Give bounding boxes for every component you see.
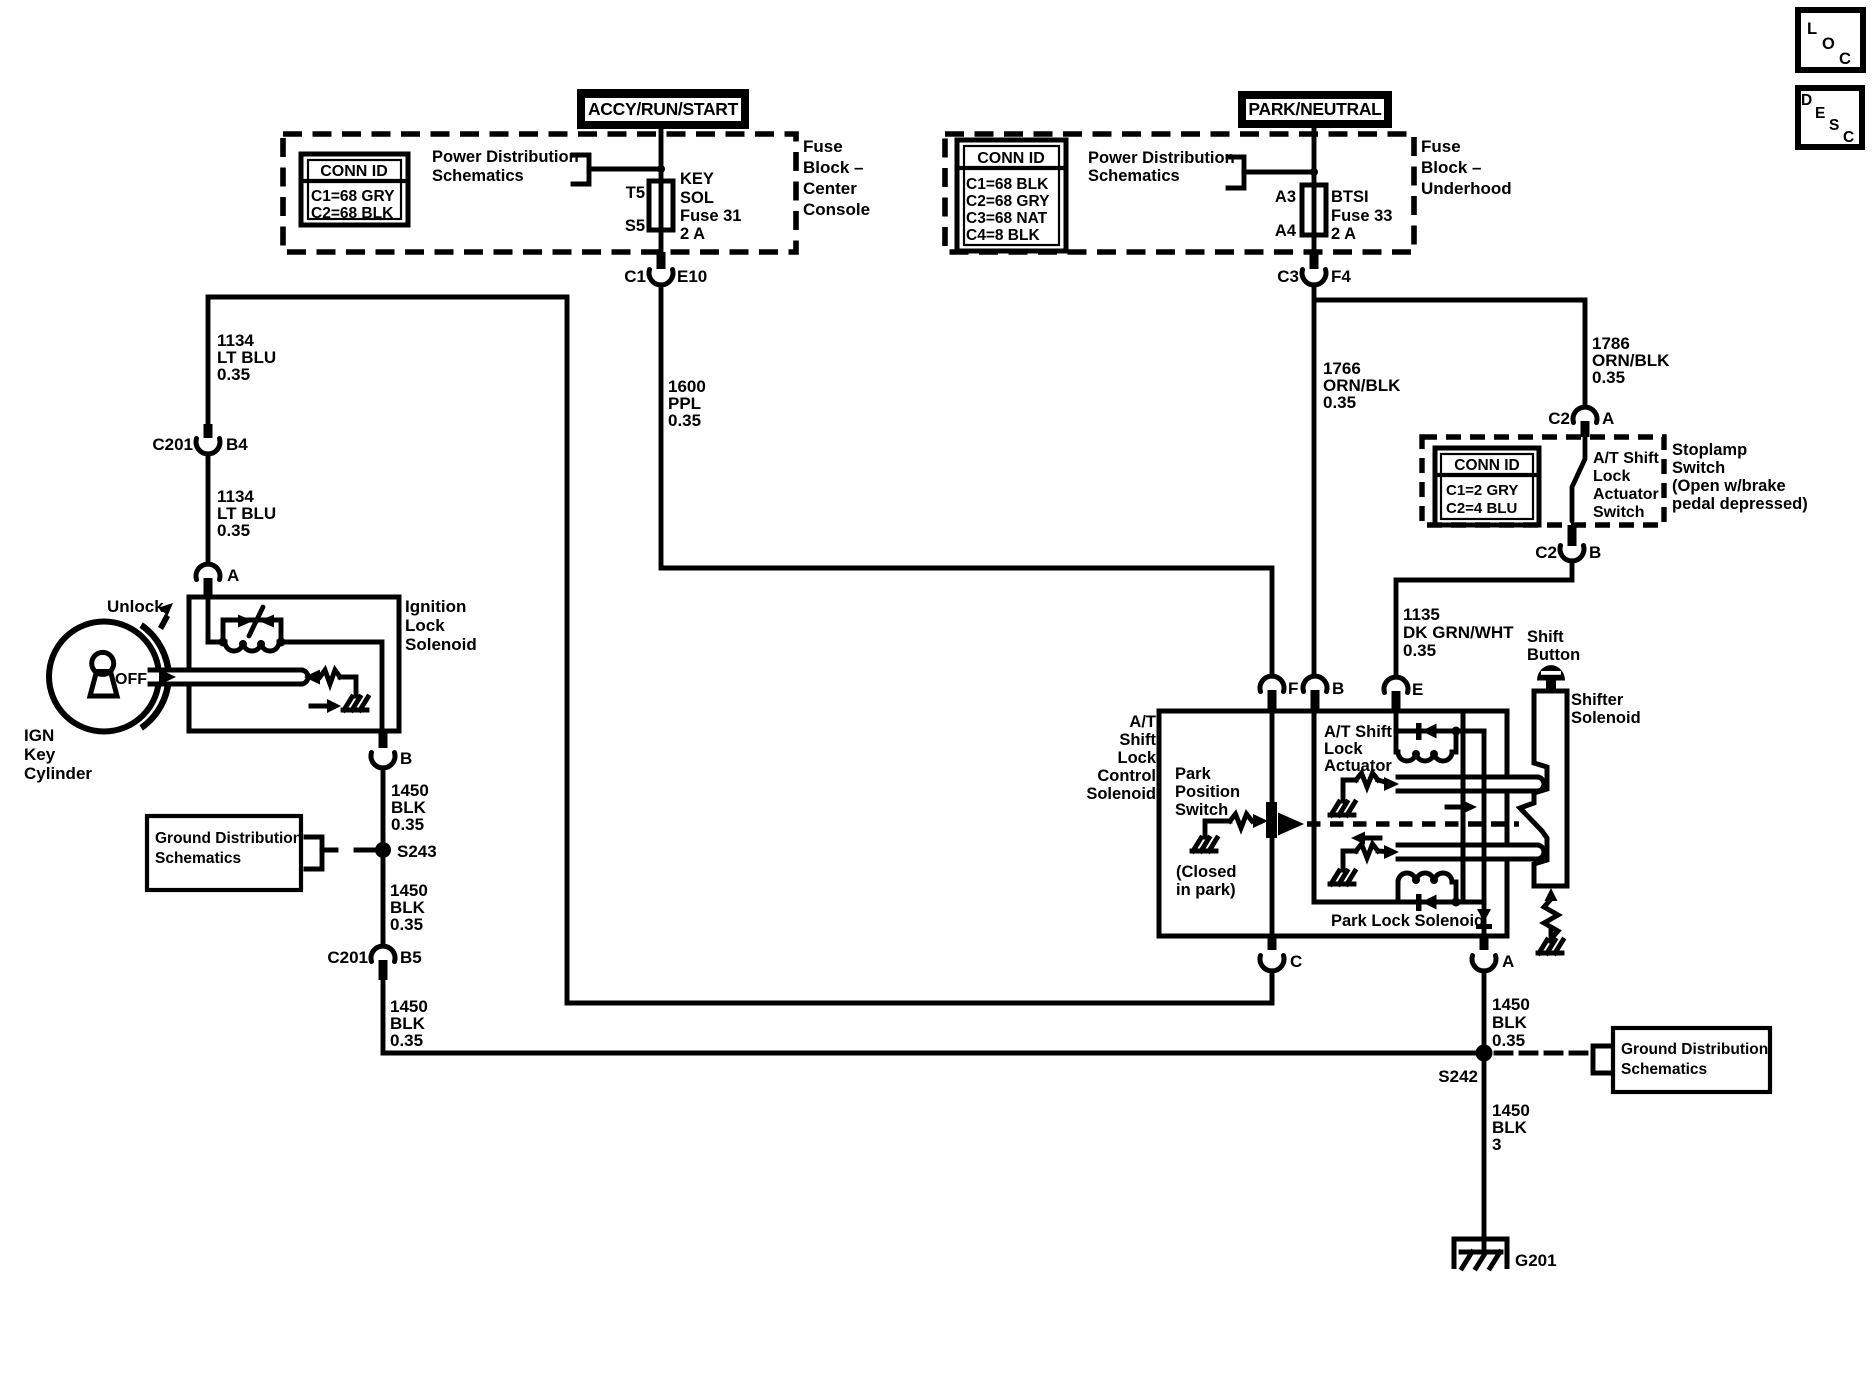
key-turn crescent arc	[140, 622, 173, 730]
svg-text:pedal depressed): pedal depressed)	[1672, 495, 1808, 513]
park position switch contact bar	[1266, 802, 1277, 838]
connector C201/B5	[327, 946, 421, 967]
svg-text:Shifter: Shifter	[1571, 691, 1624, 709]
label Fuse Block - Center Console	[803, 137, 870, 219]
svg-text:2 A: 2 A	[680, 225, 705, 243]
park position switch label	[1175, 765, 1240, 819]
ground distribution schematics box (S242)	[1613, 1028, 1770, 1092]
svg-text:O: O	[1822, 35, 1835, 53]
svg-text:C2=68 BLK: C2=68 BLK	[311, 205, 394, 222]
connector C2/B (stoplamp switch)	[1568, 525, 1577, 546]
svg-text:0.35: 0.35	[1492, 1031, 1525, 1050]
dashed link to splice S243	[322, 848, 345, 853]
shifter spring ground	[1538, 951, 1562, 956]
svg-text:Stoplamp: Stoplamp	[1672, 441, 1747, 459]
title box PARK/NEUTRAL	[1238, 91, 1392, 128]
left loop wire (connector C back to C201/B4)	[208, 297, 1272, 1003]
svg-text:A: A	[227, 566, 239, 585]
svg-text:C2=4 BLU: C2=4 BLU	[1446, 500, 1517, 517]
stoplamp switch dashed box	[1422, 437, 1664, 525]
label Shift Button	[1527, 628, 1580, 664]
svg-text:Fuse 33: Fuse 33	[1331, 207, 1392, 225]
wire fuse 33 to connector C3/F4	[1312, 235, 1317, 258]
case ground (ignition solenoid)	[343, 708, 367, 713]
svg-text:G201: G201	[1515, 1251, 1557, 1270]
svg-text:CONN ID: CONN ID	[320, 163, 388, 180]
svg-text:(Closed: (Closed	[1176, 863, 1237, 881]
svg-text:3: 3	[1492, 1135, 1501, 1154]
svg-text:D: D	[1801, 92, 1812, 109]
park position switch actuator arrow	[1278, 813, 1304, 836]
svg-text:C2: C2	[1535, 543, 1557, 562]
park lock solenoid suppression diode	[1314, 900, 1484, 905]
svg-text:DK GRN/WHT: DK GRN/WHT	[1403, 623, 1514, 642]
svg-text:KEY: KEY	[680, 170, 714, 188]
fuse 31 terminal labels T5 / S5	[625, 184, 645, 235]
svg-text:Lock: Lock	[1593, 468, 1630, 485]
svg-text:Shift: Shift	[1527, 628, 1564, 646]
svg-text:1135: 1135	[1403, 605, 1440, 624]
svg-text:C1: C1	[624, 267, 646, 286]
CONN ID table (stoplamp switch)	[1435, 448, 1539, 525]
plunger rod (key cylinder to solenoid)	[150, 670, 308, 684]
connector C2/A (stoplamp switch)	[1581, 421, 1590, 437]
svg-text:C2: C2	[1548, 409, 1570, 428]
svg-text:Ground Distribution: Ground Distribution	[155, 830, 302, 847]
svg-text:SOL: SOL	[680, 189, 714, 207]
park lock solenoid coil	[1398, 873, 1452, 882]
svg-text:Actuator: Actuator	[1324, 757, 1392, 775]
svg-text:Fuse: Fuse	[1421, 137, 1461, 156]
svg-text:Lock: Lock	[405, 616, 445, 635]
svg-text:Unlock: Unlock	[107, 597, 164, 616]
label Power Distribution Schematics (left)	[432, 148, 579, 185]
svg-text:0.35: 0.35	[1323, 393, 1356, 412]
connector B (A/T box)	[1303, 676, 1344, 698]
svg-text:A3: A3	[1275, 188, 1296, 206]
splice S242	[1476, 1045, 1493, 1062]
svg-text:Button: Button	[1527, 646, 1580, 664]
fuse 33 (BTSI, 2A)	[1302, 185, 1326, 235]
label Fuse Block - Underhood	[1421, 137, 1512, 198]
svg-text:0.35: 0.35	[217, 521, 250, 540]
connector F	[1260, 676, 1298, 698]
IGN key cylinder circle	[49, 622, 159, 732]
free arrow left (plunger travel)	[1363, 836, 1380, 841]
bracket to power distribution (left)	[573, 155, 589, 184]
svg-text:C: C	[1290, 952, 1302, 971]
node branch at F4 to stoplamp feed	[1316, 300, 1585, 407]
svg-text:0.35: 0.35	[391, 815, 424, 834]
svg-text:Schematics: Schematics	[1621, 1061, 1707, 1078]
connector C1/E10	[624, 267, 707, 286]
wire 1450 BLK 0.35 (B to S243)	[381, 768, 386, 944]
svg-text:Park: Park	[1175, 765, 1212, 783]
connector C3/F4	[1277, 267, 1351, 286]
wire label 1766 ORN/BLK 0.35	[1323, 359, 1401, 412]
wire 1450 BLK 3 (S242 to G201)	[1482, 1053, 1487, 1250]
svg-text:Fuse: Fuse	[803, 137, 843, 156]
plunger return spring contact arrow	[304, 670, 320, 685]
wire fuse 31 to connector C1/E10	[659, 230, 664, 258]
svg-text:Switch: Switch	[1175, 801, 1228, 819]
svg-text:0.35: 0.35	[1592, 368, 1625, 387]
fuse 31 (KEY SOL, 2A)	[649, 181, 673, 230]
wire 1766 ORN/BLK 0.35 (F4 to B)	[1312, 285, 1317, 676]
svg-text:CONN ID: CONN ID	[1454, 457, 1519, 474]
shift button	[1537, 665, 1565, 691]
svg-text:Control: Control	[1097, 767, 1156, 785]
output diode to connector A	[1477, 909, 1491, 922]
label Shifter Solenoid	[1571, 691, 1641, 727]
svg-text:C: C	[1843, 129, 1854, 146]
ignition solenoid armature frame	[208, 620, 281, 642]
svg-text:2 A: 2 A	[1331, 225, 1356, 243]
armature slash	[249, 607, 263, 636]
svg-text:Cylinder: Cylinder	[24, 764, 92, 783]
svg-text:PARK/NEUTRAL: PARK/NEUTRAL	[1248, 99, 1382, 119]
park position switch resistor and arrow	[1205, 821, 1230, 837]
svg-text:Block –: Block –	[1421, 158, 1481, 177]
svg-text:Solenoid: Solenoid	[405, 635, 477, 654]
label A/T Shift Lock Actuator	[1324, 723, 1392, 775]
ignition lock solenoid box	[189, 597, 399, 731]
svg-text:F4: F4	[1331, 267, 1351, 286]
svg-text:Key: Key	[24, 745, 56, 764]
fuse block underhood dashed box	[945, 134, 1414, 252]
connector A (ignition lock solenoid)	[196, 564, 239, 585]
label A/T Shift Lock Control Solenoid	[1086, 713, 1156, 803]
LOC corner box	[1798, 10, 1863, 70]
lower plunger rod	[1398, 845, 1544, 859]
svg-text:Center: Center	[803, 179, 857, 198]
svg-text:L: L	[1807, 20, 1817, 38]
fuse 33 terminal labels A3 / A4	[1275, 188, 1297, 240]
actuator plunger resistor (upper)	[1343, 780, 1356, 801]
wire label 1600 PPL 0.35	[668, 377, 706, 430]
label Ignition Lock Solenoid	[405, 597, 477, 654]
svg-text:A: A	[1602, 409, 1614, 428]
svg-text:Switch: Switch	[1672, 459, 1725, 477]
svg-text:Lock: Lock	[1324, 740, 1363, 758]
park position switch feed wire (F to C)	[1270, 712, 1275, 936]
svg-text:C2=68 GRY: C2=68 GRY	[966, 193, 1050, 210]
actuator solenoid feed from E	[1394, 712, 1399, 752]
svg-text:0.35: 0.35	[1403, 641, 1436, 660]
svg-text:0.35: 0.35	[668, 411, 701, 430]
connector C201/B4	[204, 424, 213, 438]
svg-text:S242: S242	[1438, 1067, 1478, 1086]
svg-text:BLK: BLK	[1492, 1013, 1528, 1032]
wire coil to connector B	[281, 642, 382, 731]
spring to case ground wire	[340, 677, 356, 696]
svg-text:Solenoid: Solenoid	[1571, 709, 1641, 727]
svg-text:A/T Shift: A/T Shift	[1324, 723, 1392, 741]
actuator plunger resistor (lower)	[1343, 851, 1356, 870]
svg-text:Schematics: Schematics	[432, 167, 524, 185]
svg-text:C201: C201	[327, 948, 368, 967]
svg-text:0.35: 0.35	[390, 915, 423, 934]
ground distribution schematics box (S243)	[147, 816, 302, 890]
svg-text:Ground Distribution: Ground Distribution	[1621, 1041, 1768, 1058]
svg-text:A/T Shift: A/T Shift	[1593, 450, 1659, 467]
wire 1450 BLK 0.35 (B5 to S242)	[383, 978, 1484, 1053]
svg-text:IGN: IGN	[24, 726, 54, 745]
svg-text:B: B	[1332, 679, 1344, 698]
wire C down to left loop	[1270, 971, 1275, 1003]
actuator upper ground	[1330, 813, 1354, 818]
wire label 1134 LT BLU 0.35 (upper)	[217, 331, 276, 384]
fuse 31 value label	[680, 170, 741, 243]
wire from bracket to ACCY feed	[589, 167, 661, 172]
svg-text:B5: B5	[400, 948, 422, 967]
wire label 1135 DK GRN/WHT 0.35	[1403, 605, 1514, 660]
wire PARK/NEUTRAL feed into fuse 33	[1312, 125, 1317, 186]
svg-text:C: C	[1839, 50, 1851, 68]
svg-text:C4=8 BLK: C4=8 BLK	[966, 227, 1040, 244]
label Stoplamp Switch (Open w/brake pedal depressed)	[1672, 441, 1808, 513]
actuator lower ground	[1330, 882, 1354, 887]
connector E	[1384, 677, 1423, 699]
splice S243	[375, 842, 391, 858]
park position switch ground	[1192, 849, 1216, 854]
svg-text:C1=68 GRY: C1=68 GRY	[311, 188, 395, 205]
ignition solenoid coil	[225, 642, 279, 651]
label (Closed in park)	[1176, 863, 1237, 899]
wire 1450 BLK 0.35 (A to S242)	[1482, 971, 1487, 1053]
label Power Distribution Schematics (right)	[1088, 149, 1235, 185]
A/T shift lock actuator inner box	[1314, 711, 1463, 902]
svg-text:S: S	[1829, 117, 1839, 134]
svg-text:BTSI: BTSI	[1331, 188, 1369, 206]
shifter return spring	[1545, 888, 1558, 901]
svg-text:Fuse 31: Fuse 31	[680, 207, 741, 225]
svg-text:Actuator: Actuator	[1593, 486, 1659, 503]
svg-text:E: E	[1815, 105, 1825, 122]
wire 1135 DK GRN/WHT 0.35 (C2/B to E)	[1396, 561, 1572, 677]
dashed link to ground distribution (S242)	[1496, 1051, 1588, 1056]
svg-text:(Open w/brake: (Open w/brake	[1672, 477, 1786, 495]
svg-text:C1=68 BLK: C1=68 BLK	[966, 176, 1049, 193]
svg-text:Power Distribution: Power Distribution	[432, 148, 579, 166]
svg-text:B4: B4	[226, 435, 248, 454]
svg-text:0.35: 0.35	[390, 1031, 423, 1050]
actuator solenoid coil	[1398, 752, 1452, 761]
wire from bracket to PARK/NEUTRAL feed	[1244, 170, 1314, 175]
armature arrows	[238, 615, 253, 628]
svg-text:ACCY/RUN/START: ACCY/RUN/START	[588, 99, 739, 119]
svg-text:F: F	[1288, 679, 1298, 698]
connector A (A/T box)	[1480, 936, 1489, 950]
A/T shift lock control solenoid box	[1159, 711, 1507, 936]
svg-text:Underhood: Underhood	[1421, 179, 1512, 198]
wire label 1786 ORN/BLK 0.35	[1592, 334, 1670, 387]
svg-text:Position: Position	[1175, 783, 1240, 801]
svg-text:Ignition: Ignition	[405, 597, 466, 616]
A/T shift lock actuator switch contact	[1572, 437, 1585, 521]
svg-text:CONN ID: CONN ID	[977, 150, 1045, 167]
svg-text:Block –: Block –	[803, 158, 863, 177]
svg-text:T5: T5	[626, 184, 645, 202]
wire 1134 LT BLU 0.35 (lower)	[206, 454, 211, 563]
svg-text:Power Distribution: Power Distribution	[1088, 149, 1235, 167]
free arrow right (plunger travel)	[1447, 805, 1464, 810]
bracket to power distribution (right)	[1228, 157, 1244, 188]
CONN ID table (fuse block center console)	[301, 154, 408, 225]
unlock direction arrow	[158, 614, 170, 630]
connector B (ignition lock solenoid)	[379, 733, 388, 748]
label A/T Shift Lock Actuator Switch	[1593, 450, 1659, 521]
DESC corner box	[1798, 88, 1862, 147]
fuse 33 value label	[1331, 188, 1392, 243]
bracket to ground distribution (S243)	[306, 837, 322, 869]
svg-text:0.35: 0.35	[217, 365, 250, 384]
svg-text:Switch: Switch	[1593, 504, 1645, 521]
bracket to ground distribution (S242)	[1593, 1046, 1609, 1073]
travel arrow	[311, 704, 328, 709]
title box ACCY/RUN/START	[577, 89, 749, 129]
fuse block center console dashed box	[283, 134, 796, 252]
actuator suppression diode	[1396, 729, 1484, 734]
svg-text:Lock: Lock	[1117, 749, 1156, 767]
wire A into solenoid	[206, 598, 211, 642]
wire 1450 BLK 0.35 (S243 to C201/B5)	[390, 881, 428, 934]
mechanical link dashed line	[1307, 821, 1519, 827]
svg-text:C3=68 NAT: C3=68 NAT	[966, 210, 1048, 227]
svg-text:OFF: OFF	[115, 671, 147, 688]
svg-text:E10: E10	[677, 267, 707, 286]
CONN ID table (fuse block underhood)	[957, 140, 1066, 251]
wire actuator to connector A	[1482, 731, 1487, 936]
svg-text:A4: A4	[1275, 222, 1297, 240]
svg-text:Schematics: Schematics	[1088, 167, 1180, 185]
svg-text:S243: S243	[397, 842, 437, 861]
svg-text:C201: C201	[152, 435, 193, 454]
plunger spring resistor	[320, 670, 340, 684]
ground G201	[1454, 1239, 1507, 1269]
svg-text:C1=2 GRY: C1=2 GRY	[1446, 482, 1518, 499]
svg-text:in park): in park)	[1176, 881, 1236, 899]
svg-text:A: A	[1502, 952, 1514, 971]
svg-text:C3: C3	[1277, 267, 1299, 286]
upper plunger rod	[1398, 777, 1544, 791]
svg-text:Shift: Shift	[1119, 731, 1156, 749]
svg-text:S5: S5	[625, 217, 645, 235]
svg-text:B: B	[400, 749, 412, 768]
OFF arrow into plunger	[159, 669, 176, 685]
keyhole symbol	[90, 652, 117, 696]
svg-text:E: E	[1412, 680, 1423, 699]
wire 1600 PPL 0.35 (E10 to F)	[661, 285, 1272, 676]
wire ACCY/RUN/START feed into fuse	[659, 127, 664, 182]
shifter solenoid body	[1520, 691, 1567, 886]
svg-text:Console: Console	[803, 200, 870, 219]
svg-text:Park Lock Solenoid: Park Lock Solenoid	[1331, 912, 1484, 930]
svg-text:A/T: A/T	[1129, 713, 1156, 731]
svg-text:Solenoid: Solenoid	[1086, 785, 1156, 803]
connector C	[1268, 936, 1277, 950]
svg-text:B: B	[1589, 543, 1601, 562]
svg-text:Schematics: Schematics	[155, 850, 241, 867]
label IGN Key Cylinder	[24, 726, 92, 783]
svg-text:1450: 1450	[1492, 995, 1530, 1014]
